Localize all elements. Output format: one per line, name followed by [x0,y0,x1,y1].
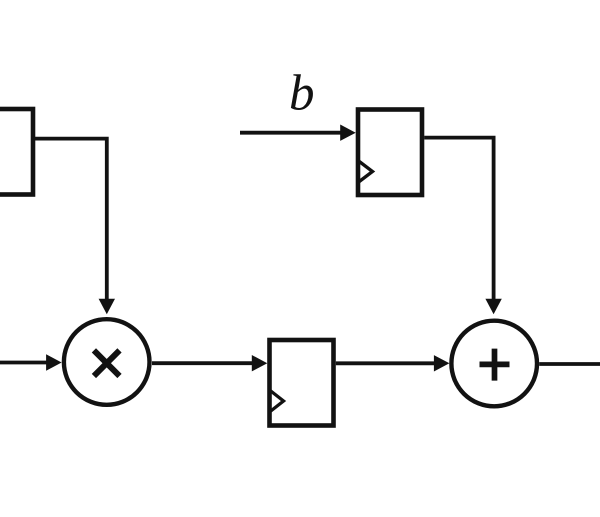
arrowhead into multiplier left [46,354,62,370]
multiplier M1 circle [64,319,150,405]
clock triangle of R3 [358,161,373,183]
register R1 (clipped at left edge) [0,109,33,195]
register R2 (pipeline register, bottom) [270,340,334,426]
arrowhead into adder top [485,299,501,315]
wire input x into multiplier from left edge [0,361,47,365]
wire adder output to right edge [539,362,600,366]
arrowhead into adder left [434,355,450,371]
wire R1 output to multiplier (with corner) [33,139,107,299]
plus sign [480,349,510,381]
register R3 (b register, top) [358,110,422,196]
clock triangle of R2 [270,390,284,412]
arrowhead into register R3 [340,125,356,141]
multiply sign [94,350,120,376]
arrowhead into register R2 [252,355,267,371]
svg-text:b: b [289,66,315,122]
wire multiplier to register R2 [152,361,253,365]
adder A1 circle [451,321,537,407]
wire register R2 to adder [336,361,435,365]
wire input b arrow [240,131,341,135]
arrowhead into multiplier top [99,299,115,315]
wire R3 output to adder (with corner) [424,138,493,299]
